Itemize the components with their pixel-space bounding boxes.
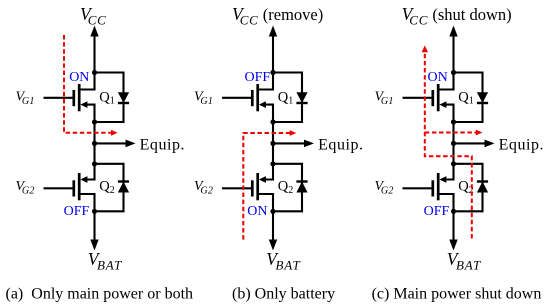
transistor Q1 (MOSFET) (c) (403, 73, 454, 123)
diode D2 (body diode of Q2, cathode up) (c) (454, 164, 489, 212)
wire VCC rail with up arrow (c) (449, 26, 457, 74)
wire VCC rail with up arrow (a) (90, 26, 98, 74)
wire Equip. output arrow (c) (454, 137, 545, 154)
wire middle rail (c) (452, 122, 454, 164)
transistor Q2 (MOSFET) (b) (222, 164, 273, 212)
node: Q1 source junction (b) (270, 119, 275, 124)
node: Equip tap (c) (451, 141, 456, 146)
red dashed current path: VCC through Q1 to Equip (a) (64, 35, 118, 136)
wire Equip. output arrow (a) (95, 137, 186, 154)
red dashed branch arrow: battery current to Equip (c) (425, 130, 483, 136)
wire Equip. output arrow (b) (273, 137, 364, 154)
svg-text:ON: ON (69, 70, 89, 85)
transistor Q2 (MOSFET) (c) (403, 164, 454, 212)
svg-text:Equip.: Equip. (318, 137, 364, 154)
svg-text:(b) Only battery: (b) Only battery (232, 285, 335, 302)
diode D2 (body diode of Q2, cathode up) (b) (273, 164, 308, 212)
red dashed current path: VBAT through Q2 to Equip (b) (243, 130, 296, 240)
wire VBAT rail with down arrow (a) (90, 211, 98, 250)
wire VBAT rail with down arrow (c) (449, 211, 457, 250)
svg-text:ON: ON (247, 204, 267, 219)
transistor Q1 (MOSFET) (b) (222, 73, 273, 123)
diode D1 (body diode of Q1, cathode down) (c) (454, 73, 489, 123)
node: Q1 drain junction (a) (92, 70, 97, 75)
node: Q2 source junction (b) (270, 209, 275, 214)
diode D1 (body diode of Q1, cathode down) (b) (273, 73, 308, 123)
svg-text:Equip.: Equip. (499, 137, 545, 154)
transistor Q2 (MOSFET) (a) (44, 164, 95, 212)
node: Q2 drain junction (b) (270, 161, 275, 166)
wire VCC rail with up arrow (b) (269, 26, 277, 74)
diode D1 (body diode of Q1, cathode down) (a) (95, 73, 130, 123)
svg-text:(a) Only main power or both: (a) Only main power or both (6, 285, 194, 302)
node: Equip tap (a) (92, 141, 97, 146)
wire middle rail (a) (93, 122, 95, 164)
node: Equip tap (b) (270, 141, 275, 146)
wire middle rail (b) (272, 122, 274, 164)
red dashed current path: VBAT through D2 up through Q1 toward VCC (c) (422, 45, 472, 238)
node: Q1 drain junction (b) (270, 70, 275, 75)
node: Q2 drain junction (a) (92, 161, 97, 166)
node: Q1 drain junction (c) (451, 70, 456, 75)
svg-text:OFF: OFF (64, 204, 90, 219)
wire VBAT rail with down arrow (b) (269, 211, 277, 250)
diode D2 (body diode of Q2, cathode up) (a) (95, 164, 130, 212)
node: Q2 drain junction (c) (451, 161, 456, 166)
transistor Q1 (MOSFET) (a) (44, 73, 95, 123)
svg-text:OFF: OFF (245, 70, 271, 85)
svg-text:ON: ON (428, 70, 448, 85)
node: Q1 source junction (c) (451, 119, 456, 124)
svg-text:(c) Main power shut down: (c) Main power shut down (372, 285, 542, 302)
node: Q2 source junction (a) (92, 209, 97, 214)
node: Q1 source junction (a) (92, 119, 97, 124)
svg-text:OFF: OFF (424, 204, 450, 219)
svg-text:Equip.: Equip. (140, 137, 186, 154)
node: Q2 source junction (c) (451, 209, 456, 214)
